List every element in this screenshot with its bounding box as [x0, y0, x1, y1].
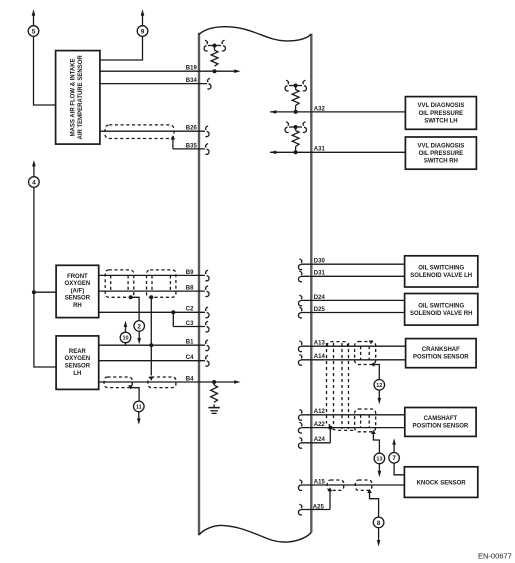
wire B4 shield to node 11	[131, 388, 140, 402]
svg-text:CAMSHAFT: CAMSHAFT	[424, 416, 458, 422]
svg-text:D30: D30	[314, 259, 326, 265]
svg-text:SENSOR: SENSOR	[65, 364, 91, 370]
knock sensor box	[404, 467, 477, 498]
svg-text:B4: B4	[186, 376, 194, 382]
wire B1	[99, 340, 209, 351]
svg-text:CRANKSHAF: CRANKSHAF	[422, 347, 460, 353]
node A31 dot	[294, 150, 298, 154]
wire B34	[100, 78, 211, 89]
node shield B dot	[149, 295, 153, 299]
svg-text:A32: A32	[314, 106, 326, 112]
svg-text:A13: A13	[314, 341, 326, 347]
svg-text:SENSOR: SENSOR	[65, 296, 91, 302]
ECM body left edge	[198, 33, 200, 536]
node 4 circle	[29, 160, 40, 187]
node 2 circle	[134, 321, 145, 345]
wire A25	[298, 504, 330, 515]
arrow crank shield drain	[371, 362, 375, 367]
svg-text:B34: B34	[186, 78, 198, 84]
wire B4	[99, 381, 235, 383]
shield around B4 right	[148, 377, 176, 388]
svg-text:A15: A15	[314, 479, 326, 485]
shield around B9/B8 pair left	[105, 270, 134, 297]
front oxygen sensor box	[56, 265, 99, 317]
svg-text:10: 10	[122, 336, 128, 342]
svg-text:RH: RH	[73, 303, 82, 309]
svg-text:A25: A25	[313, 505, 325, 511]
shield around A13/A14 pair	[355, 342, 376, 365]
node 12 circle	[374, 380, 385, 405]
svg-text:OIL PRESSURE: OIL PRESSURE	[419, 111, 464, 117]
arrow cam shield drain	[371, 430, 376, 434]
wire A14	[298, 355, 405, 366]
shield tubes from crank shield to cam junction	[327, 342, 355, 431]
wire A32	[270, 111, 405, 113]
VVL diagnosis oil pressure switch RH box	[405, 137, 476, 169]
node junction on sensor ground	[32, 290, 36, 294]
svg-text:B26: B26	[186, 126, 198, 132]
node 10 circle	[120, 321, 131, 346]
svg-text:7: 7	[392, 455, 396, 462]
svg-text:OIL SWITCHING: OIL SWITCHING	[418, 303, 464, 309]
wire B35	[173, 139, 209, 155]
camshaft position sensor box	[405, 408, 476, 437]
resistor R4 on A31	[285, 122, 306, 153]
svg-text:REAR: REAR	[69, 349, 87, 355]
oil switching solenoid valve RH box	[405, 294, 478, 326]
shield around A15 right	[355, 480, 372, 490]
wire A31	[270, 151, 405, 153]
svg-text:D31: D31	[314, 271, 326, 277]
svg-text:9: 9	[141, 28, 145, 35]
node 11 circle	[134, 401, 145, 425]
wire branch to front oxygen sensor	[34, 291, 56, 293]
crankshaft position sensor box	[406, 339, 477, 368]
svg-text:SWITCH RH: SWITCH RH	[424, 159, 458, 165]
wire crank shield to node 12	[373, 365, 380, 380]
svg-text:(A/F): (A/F)	[71, 288, 85, 294]
svg-text:MASS AIR FLOW & INTAKE: MASS AIR FLOW & INTAKE	[71, 58, 77, 136]
wire C2 to C3 link	[172, 312, 174, 326]
node shield A dot	[129, 295, 133, 299]
wire B9	[99, 270, 209, 281]
svg-text:AIR TEMPERATURE SENSOR: AIR TEMPERATURE SENSOR	[78, 55, 84, 140]
rear oxygen sensor box	[56, 336, 99, 390]
arrow A32 left	[270, 110, 276, 114]
arrow B4 shield left drain	[128, 385, 133, 389]
wire A13	[298, 341, 405, 352]
svg-text:FRONT: FRONT	[67, 274, 88, 280]
wire D25	[298, 307, 404, 318]
svg-text:VVL DIAGNOSIS: VVL DIAGNOSIS	[417, 103, 464, 109]
svg-text:POSITION SENSOR: POSITION SENSOR	[413, 355, 469, 361]
wire shield A to node 2	[131, 297, 140, 321]
shield around B9/B8 pair right	[147, 270, 176, 297]
svg-text:5: 5	[32, 28, 36, 35]
resistor R2 in ECM on B4	[211, 382, 218, 408]
svg-text:OXYGEN: OXYGEN	[65, 281, 91, 287]
wire D24	[298, 295, 404, 306]
svg-text:EN-00677: EN-00677	[478, 552, 512, 561]
svg-text:A12: A12	[314, 409, 326, 415]
wire cam shield to node 13	[373, 432, 379, 454]
svg-text:B1: B1	[186, 340, 194, 346]
wire D31	[298, 271, 404, 282]
svg-text:13: 13	[376, 457, 382, 463]
svg-text:SOLENOID VALVE LH: SOLENOID VALVE LH	[410, 273, 472, 279]
svg-text:B8: B8	[186, 286, 194, 292]
wire B26	[100, 126, 209, 137]
svg-text:C4: C4	[186, 355, 194, 361]
svg-text:12: 12	[376, 383, 382, 389]
ECM body right edge	[310, 34, 312, 533]
wire C3	[173, 321, 209, 332]
node 13 circle	[374, 453, 385, 477]
wire B8	[99, 286, 209, 297]
wire shield B down through B1 to B4 shield	[150, 297, 152, 375]
svg-text:KNOCK SENSOR: KNOCK SENSOR	[417, 480, 467, 486]
arrow A31 left	[270, 151, 276, 155]
svg-text:B19: B19	[186, 66, 198, 72]
svg-text:A24: A24	[314, 437, 326, 443]
node 7 circle	[389, 438, 400, 463]
svg-text:C2: C2	[186, 307, 194, 313]
node 9 circle	[137, 9, 148, 36]
svg-text:B35: B35	[186, 143, 198, 149]
svg-text:8: 8	[377, 520, 381, 527]
wire A22	[298, 422, 404, 433]
arrow B4	[234, 380, 240, 384]
wire C4	[99, 355, 209, 366]
shield around A12/A22 pair	[355, 409, 376, 432]
arrow B19	[234, 69, 240, 73]
shield drain arrow to B35	[171, 135, 176, 139]
oil switching solenoid valve LH box	[405, 256, 478, 287]
wire from node 9 to MAF sensor	[100, 36, 143, 60]
wire A15	[298, 480, 404, 491]
svg-text:D24: D24	[314, 295, 326, 301]
node B1 junction dot	[149, 343, 153, 347]
svg-text:LH: LH	[73, 371, 81, 377]
ground symbol	[208, 408, 219, 414]
ECM bottom torn wavy edge	[199, 525, 311, 542]
svg-text:D25: D25	[314, 307, 326, 313]
wire node 7 to knock sensor	[394, 463, 404, 474]
shield around B4 left	[104, 377, 132, 388]
svg-text:A31: A31	[314, 147, 326, 153]
ECM top torn wavy edge	[199, 27, 311, 41]
wire A24	[298, 438, 330, 449]
svg-text:POSITION SENSOR: POSITION SENSOR	[413, 424, 469, 430]
resistor R3 on A32	[285, 80, 306, 112]
svg-text:VVL DIAGNOSIS: VVL DIAGNOSIS	[417, 143, 464, 149]
VVL diagnosis oil pressure switch LH box	[405, 97, 476, 130]
wire C2	[99, 307, 209, 318]
svg-text:11: 11	[136, 405, 142, 411]
node C2 junction dot	[171, 310, 175, 314]
svg-text:OIL SWITCHING: OIL SWITCHING	[418, 266, 464, 272]
node A32 dot	[294, 110, 298, 114]
node 5 circle	[28, 9, 39, 36]
arrow shield B end	[149, 377, 154, 381]
wire from node 4 to both oxygen sensors	[34, 187, 56, 367]
arrow A15 shield left drain	[328, 487, 333, 491]
mass air flow sensor box U-MAF	[56, 51, 100, 145]
wire A25 link	[329, 490, 331, 509]
svg-text:C3: C3	[186, 321, 194, 327]
wire from node 5 to MAF sensor	[34, 36, 56, 105]
shield around B26	[105, 125, 174, 139]
svg-text:SOLENOID VALVE RH: SOLENOID VALVE RH	[410, 311, 472, 317]
svg-text:A14: A14	[314, 354, 326, 360]
wire B19	[100, 70, 235, 72]
svg-text:A22: A22	[314, 422, 326, 428]
svg-text:SWITCH LH: SWITCH LH	[424, 118, 457, 124]
svg-text:OIL PRESSURE: OIL PRESSURE	[419, 151, 464, 157]
wire knock shield to node 8	[370, 490, 379, 517]
node 8 circle	[373, 517, 384, 546]
arrow crank shield top	[369, 341, 374, 345]
svg-text:4: 4	[32, 179, 36, 186]
node B19 junction dot	[213, 69, 217, 73]
shield around A15 left	[327, 480, 344, 490]
node B4 junction dot	[212, 380, 216, 384]
svg-text:OXYGEN: OXYGEN	[65, 356, 91, 362]
wire A24 link to A22	[329, 428, 331, 443]
wire D30	[298, 259, 404, 270]
svg-text:2: 2	[137, 323, 141, 330]
node A22 junction dot	[328, 426, 332, 430]
arrow A15 shield right drain	[367, 489, 372, 493]
svg-text:B9: B9	[186, 270, 194, 276]
wire A12	[298, 410, 404, 421]
resistor R1 in ECM on B19	[204, 40, 225, 66]
